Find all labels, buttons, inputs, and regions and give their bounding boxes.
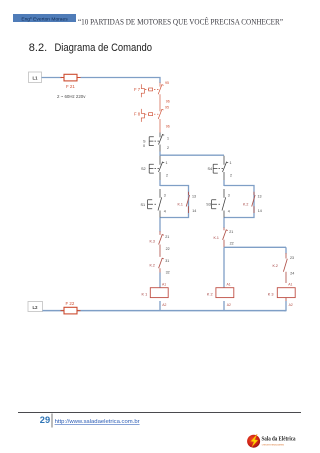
svg-text:13: 13 [258, 195, 262, 199]
page title [78, 16, 283, 26]
section heading 8.2 Diagrama de Comando [29, 42, 152, 54]
footer rule [18, 412, 301, 414]
svg-text:A2: A2 [289, 303, 293, 307]
svg-text:K.1: K.1 [214, 236, 219, 240]
bottom rail [43, 310, 287, 312]
svg-text:Sala da Elétrica: Sala da Elétrica [262, 437, 296, 443]
logo Sala da Eletrica [247, 434, 295, 448]
svg-text:K 3: K 3 [268, 292, 274, 296]
svg-text:22: 22 [166, 247, 170, 251]
svg-text:24: 24 [290, 272, 294, 276]
wire loop2 to K1 contact [223, 218, 225, 229]
svg-text:K.1: K.1 [178, 203, 183, 207]
coil K2 (A1-A2) [207, 283, 234, 308]
wire S4 to loop2 [223, 180, 225, 186]
svg-text:A2: A2 [162, 303, 166, 307]
footer page number 29 [40, 415, 50, 425]
svg-text:14: 14 [258, 209, 262, 213]
svg-text:1: 1 [230, 161, 232, 165]
parallel loop branch 2 [224, 186, 254, 218]
svg-text:K.3: K.3 [150, 240, 155, 244]
svg-text:K.2: K.2 [150, 263, 155, 267]
svg-text:4: 4 [164, 210, 166, 214]
svg-text:2 ~ 60Hz 220v: 2 ~ 60Hz 220v [57, 94, 86, 99]
seal contact K1 (13-14) [178, 192, 197, 213]
svg-text:A1: A1 [288, 283, 292, 287]
author tag box [13, 14, 76, 22]
pushbutton S1 (NO start, 3-4) [141, 189, 166, 218]
svg-text:F 22: F 22 [66, 301, 75, 306]
coil K3 (A1-A2) [268, 283, 295, 308]
overload relay contact F8 (95-96) [134, 106, 170, 133]
wire S2 to loop1 [159, 180, 161, 186]
interlock contact K3 (21-22) [150, 231, 170, 257]
fuse F21 [61, 74, 81, 89]
svg-text:S: S [143, 140, 146, 144]
wire F21 to corner, down to F7 [81, 78, 161, 84]
coil K1 (A1-A2) [142, 273, 169, 308]
wire coil K2 to rail [223, 301, 225, 311]
svg-text:0: 0 [143, 144, 145, 148]
svg-text:8.2.: 8.2. [29, 42, 47, 54]
svg-text:32: 32 [166, 271, 170, 275]
svg-text:Engº Everton Moraes: Engº Everton Moraes [21, 16, 68, 22]
svg-text:23: 23 [290, 256, 294, 260]
svg-text:22: 22 [230, 241, 234, 245]
pushbutton S0 (NC stop, 1-2) [143, 133, 169, 152]
wire down to coil K2 [223, 247, 225, 287]
svg-text:A1: A1 [227, 283, 231, 287]
svg-text:13: 13 [192, 195, 196, 199]
svg-text:S3: S3 [206, 202, 211, 206]
svg-text:3: 3 [228, 193, 230, 197]
svg-text:http://www.saladaeletrica.com.: http://www.saladaeletrica.com.br [55, 419, 140, 425]
terminal L1 [29, 72, 42, 83]
svg-text:95: 95 [165, 106, 169, 110]
svg-text:95: 95 [165, 81, 169, 85]
svg-text:S2: S2 [141, 167, 146, 171]
svg-text:Diagrama de Comando: Diagrama de Comando [55, 42, 153, 54]
svg-text:96: 96 [166, 99, 170, 103]
svg-text:31: 31 [165, 259, 169, 263]
junction branch split [160, 154, 224, 156]
svg-text:2: 2 [166, 174, 168, 178]
svg-text:CONHECIMENTO PARA SUA CARREIRA: CONHECIMENTO PARA SUA CARREIRA [262, 443, 284, 446]
svg-text:29: 29 [40, 415, 50, 425]
svg-text:F 7: F 7 [134, 87, 141, 92]
interlock contact K1 (21-22) [214, 228, 234, 248]
fuse F22 [61, 301, 81, 314]
svg-text:14: 14 [192, 209, 196, 213]
svg-text:L1: L1 [33, 75, 39, 80]
svg-text:1: 1 [167, 137, 169, 141]
svg-text:K.2: K.2 [243, 203, 248, 207]
svg-text:K.2: K.2 [273, 264, 278, 268]
svg-text:F 21: F 21 [66, 84, 75, 89]
svg-text:K 2: K 2 [207, 292, 213, 296]
wire third branch down [285, 247, 287, 253]
overload relay contact F7 (95-96) [134, 81, 170, 107]
aux contact K2 (23-24) third branch [273, 253, 295, 283]
svg-text:K 1: K 1 [142, 292, 148, 296]
pushbutton S3 (NO start, 3-4) [206, 189, 230, 218]
terminal L2 [28, 302, 43, 312]
svg-text:“10 PARTIDAS DE MOTORES QUE VO: “10 PARTIDAS DE MOTORES QUE VOCÊ PRECISA… [78, 16, 283, 26]
svg-text:A1: A1 [162, 283, 166, 287]
seal contact K2 (13-14) [243, 192, 262, 213]
svg-text:4: 4 [228, 210, 230, 214]
svg-text:96: 96 [166, 125, 170, 129]
junction to third branch [224, 246, 286, 248]
svg-text:S1: S1 [141, 203, 146, 207]
wire L1 to F21 [42, 77, 63, 79]
svg-text:21: 21 [165, 235, 169, 239]
footer separator [51, 414, 53, 428]
svg-text:A2: A2 [227, 303, 231, 307]
parallel loop branch 1 [160, 186, 189, 218]
wire coil K1 to rail [159, 301, 161, 311]
wire coil K3 to rail corner [284, 301, 286, 311]
wire loop1 to K3 contact [159, 218, 161, 232]
svg-text:F 8: F 8 [134, 112, 141, 117]
svg-text:L2: L2 [33, 305, 39, 310]
wire S0 to junction [159, 152, 161, 156]
svg-text:2: 2 [230, 174, 232, 178]
svg-text:21: 21 [229, 230, 233, 234]
svg-text:2: 2 [167, 146, 169, 150]
svg-text:S4: S4 [208, 167, 213, 171]
pushbutton S4 (NC, 1-2) right branch [208, 156, 233, 180]
interlock contact K2 (31-32) [150, 258, 170, 275]
footer link [55, 419, 140, 425]
svg-text:3: 3 [164, 193, 166, 197]
pushbutton S2 (NC, 1-2) left branch [141, 156, 168, 180]
svg-text:1: 1 [166, 161, 168, 165]
